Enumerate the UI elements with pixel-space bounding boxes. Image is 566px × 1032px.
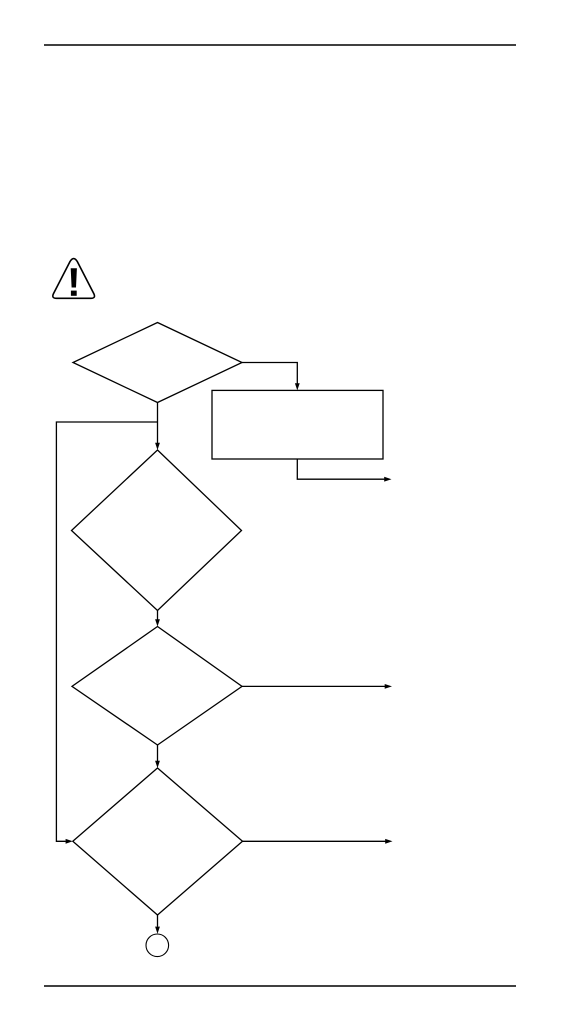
arrowhead D4 right exit bbox=[385, 839, 392, 844]
wire D1 bottom to D2 top bbox=[157, 403, 159, 444]
warning icon exclamation dot bbox=[71, 291, 77, 296]
decision diamond D2 bbox=[72, 450, 242, 611]
decision diamond D3 bbox=[72, 627, 242, 746]
wire rectangle bottom exit bbox=[297, 459, 384, 479]
warning icon exclamation bar bbox=[71, 268, 77, 287]
arrowhead into D2 top bbox=[155, 443, 160, 450]
wire D4 right exit bbox=[243, 840, 386, 842]
header rule bbox=[44, 44, 516, 46]
warning icon triangle bbox=[53, 259, 95, 299]
wire D2 bottom to D3 top bbox=[157, 611, 159, 620]
connector circle bbox=[146, 934, 169, 957]
wire D3 bottom to D4 top bbox=[157, 745, 159, 761]
arrowhead into rectangle top bbox=[295, 383, 300, 390]
wire feedback loop to D4 left bbox=[56, 422, 157, 841]
wire D4 bottom to connector circle bbox=[157, 915, 159, 927]
decision diamond D4 bbox=[73, 768, 243, 915]
arrowhead into D4 left bbox=[66, 839, 73, 844]
arrowhead into D4 top bbox=[155, 761, 160, 768]
wire D1 right to rectangle top bbox=[242, 363, 297, 384]
wire D3 right exit bbox=[242, 685, 385, 687]
arrowhead D3 right exit bbox=[385, 684, 392, 689]
arrowhead rectangle exit right bbox=[384, 477, 391, 482]
process box P1 bbox=[212, 390, 383, 459]
footer rule bbox=[44, 985, 516, 987]
decision diamond D1 bbox=[73, 323, 242, 403]
arrowhead into D3 top bbox=[155, 619, 160, 626]
arrowhead into connector circle bbox=[155, 927, 160, 934]
